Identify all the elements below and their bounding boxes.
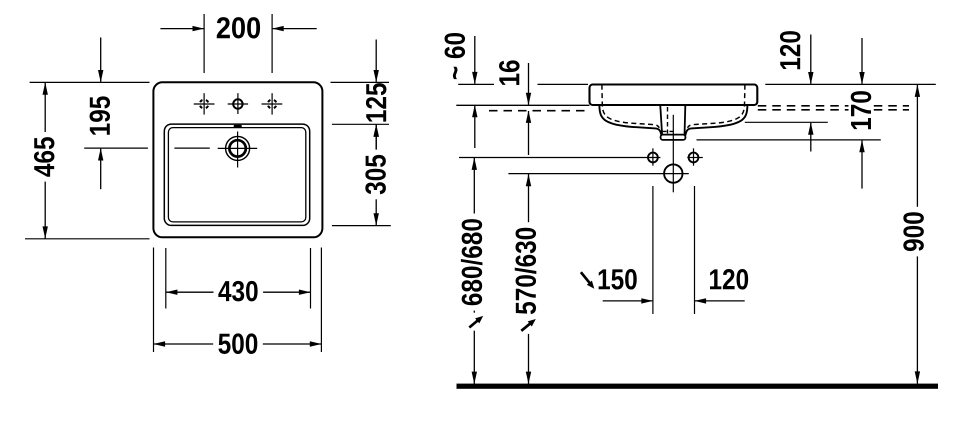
dimension ~60 upper staff with arrow <box>474 36 476 84</box>
dimension text 120 (hole spacing) <box>710 269 748 290</box>
dimension text 680/680 <box>459 214 484 311</box>
dimension text ~60 <box>445 33 466 79</box>
tap hole center centerline vertical <box>237 93 239 114</box>
fixation hole left vertical centerline <box>652 148 654 165</box>
extension line below rim right edge <box>320 248 322 353</box>
dimension text 465 <box>32 132 57 182</box>
basin drain stub left wall <box>660 106 662 136</box>
counter board lower dashed line (left of basin) <box>489 110 589 112</box>
dimension 570/630 arrows <box>526 174 531 186</box>
drain level leader line, inner segment <box>174 147 209 149</box>
basin front view: rim slab <box>590 85 758 106</box>
extension line below right fixation hole <box>694 186 696 314</box>
dimension ~60 lower staff with arrow <box>474 105 476 148</box>
dimension 305 arrows <box>374 124 379 136</box>
extension line rim top-right <box>331 81 390 83</box>
extension line drain bottom level (170) <box>697 139 881 141</box>
dimension text 500 <box>213 331 263 356</box>
tap hole right (dashed) centerline vertical <box>271 93 273 114</box>
extension line inner basin bottom-right <box>332 225 391 227</box>
counter top surface line (left of basin) <box>456 104 589 106</box>
dimension text 200 <box>217 17 260 38</box>
dimension text 150 <box>599 269 637 290</box>
tap hole left (dashed) centerline horizontal <box>194 103 215 105</box>
tap hole right dashed circle <box>268 100 277 109</box>
dimension 195 upper staff with arrow <box>100 38 102 82</box>
fixation hole left circle <box>648 153 658 163</box>
basin drain stub right wall <box>684 106 687 136</box>
dimension 680/680 line <box>473 158 475 385</box>
dimension 170 upper staff with arrow <box>861 38 863 84</box>
dimension 120 lower staff with arrow <box>810 123 812 152</box>
extension line rim top level, right <box>765 83 936 85</box>
dimension text 570/630 <box>513 222 538 319</box>
tap hole left (dashed) centerline vertical <box>203 93 205 114</box>
extension line rim top level, left outer segment <box>458 83 494 85</box>
dimension text 170 <box>849 86 874 136</box>
floor line <box>457 384 939 389</box>
dimension 430 line <box>166 291 311 293</box>
washbasin top view: inner basin edge (outer line) <box>164 124 309 225</box>
drain centerline horizontal <box>218 147 258 149</box>
extension line above left tap hole <box>203 14 205 73</box>
counter lower dashed line (right of basin) <box>758 109 909 111</box>
basin inner bowl dashed profile right <box>688 85 745 128</box>
tap hole center centerline horizontal <box>228 103 248 105</box>
basin drain stub bottom cup <box>661 135 686 140</box>
fixation hole right horizontal centerline <box>687 157 703 159</box>
dimension 200 left staff with arrow <box>160 28 203 30</box>
fixation hole right vertical centerline <box>693 148 695 165</box>
dimension 465 arrows <box>43 82 48 94</box>
dimension 125 lower staff with arrow <box>375 125 377 149</box>
dimension 170 lower staff with arrow <box>861 140 863 188</box>
extension line rim top level, left inner segment <box>538 83 589 85</box>
basin front view: bowl outline left <box>599 105 662 138</box>
extension line above right tap hole <box>271 14 273 73</box>
drain inner circle (bold) <box>229 140 245 156</box>
dimension 120 upper staff with arrow <box>810 35 812 84</box>
fixation hole right circle <box>689 153 699 163</box>
dimension 900 line <box>916 85 918 384</box>
dimension 500 line <box>154 343 322 345</box>
leader arrow for 150 <box>578 271 598 289</box>
extension line rim top-left <box>30 81 150 83</box>
dimension 195 lower staff with arrow <box>100 149 102 190</box>
dimension 900 arrows <box>915 85 920 97</box>
dimension 120 bottom line with arrow <box>695 300 745 302</box>
leader arrow for 680/680 <box>466 313 486 331</box>
drain outer circle <box>226 136 250 160</box>
fixation holes horizontal centerline (long) <box>459 157 660 159</box>
dimension text 305 <box>363 150 388 200</box>
drain centerline vertical <box>237 132 239 168</box>
dimension 150 line with arrow <box>603 300 653 302</box>
extension line bowl depth level (120) <box>745 121 828 123</box>
drain hole horizontal centerline <box>508 173 688 175</box>
dimension text 430 <box>214 279 264 304</box>
basin vertical centerline <box>672 115 674 193</box>
dimension 500 arrows <box>154 341 166 346</box>
dimension 680/680 arrows <box>472 158 477 170</box>
drain level leader line (195 reference), left segment <box>84 147 148 149</box>
drain hole circle <box>664 164 682 182</box>
extension line rim bottom-left <box>25 238 150 240</box>
dimension 430 arrows <box>166 290 178 295</box>
washbasin top view: outer rim (500x465) <box>153 82 322 237</box>
dimension 16 lower staff with arrow <box>528 111 530 155</box>
tap hole center circle <box>233 99 242 108</box>
dimension text 195 <box>87 91 112 141</box>
dimension 465 line <box>44 82 46 238</box>
dimension 125 upper staff with arrow <box>375 40 377 82</box>
tap hole left dashed circle <box>200 100 209 109</box>
tap hole right (dashed) centerline horizontal <box>262 103 283 105</box>
extension line below inner basin left <box>165 248 167 309</box>
basin front view: bowl outline right <box>685 105 748 138</box>
dimension 16 upper staff with arrow <box>528 63 530 105</box>
dimension text 125 <box>366 83 387 121</box>
leader arrow for 570/630 <box>519 316 539 334</box>
dimension text 16 <box>497 55 522 91</box>
washbasin top view: inner basin edge (inner line) <box>168 128 305 222</box>
dimension text 120 (basin depth) <box>778 26 803 76</box>
counter top dashed line (right of basin) <box>758 105 909 107</box>
dimension 305 line <box>375 124 377 225</box>
drain interior dashed vertical <box>667 107 669 134</box>
dimension text 900 <box>901 207 926 257</box>
drain interior dashed bottom <box>662 130 674 132</box>
basin inner bowl dashed profile left <box>602 85 659 128</box>
extension line below inner basin right <box>310 248 312 309</box>
extension line inner basin top-right <box>332 123 389 125</box>
dimension 570/630 line <box>528 174 530 384</box>
extension line below rim left edge <box>153 248 155 353</box>
dimension 200 right staff with arrow <box>273 28 317 30</box>
overflow slot at inner basin top <box>234 125 242 128</box>
extension line below left fixation hole <box>652 186 654 314</box>
